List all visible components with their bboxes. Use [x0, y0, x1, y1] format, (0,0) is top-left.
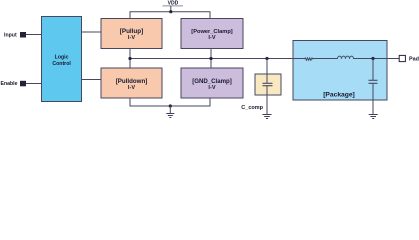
junction GND rail dot — [169, 104, 172, 107]
wire main signal line — [130, 58, 305, 60]
svg-text:[Package]: [Package] — [323, 92, 355, 99]
wire Logic Control to Pulldown — [82, 79, 102, 81]
block Pulldown I-V — [101, 68, 162, 98]
junction dot at C_comp node — [265, 57, 268, 60]
junction dot package cap — [371, 57, 374, 60]
wire Logic Control to Pullup — [82, 31, 102, 33]
wire Power_Clamp bottom to GND_Clamp top — [210, 49, 212, 69]
wire Input to Logic Control — [26, 34, 41, 36]
svg-text:Control: Control — [52, 61, 71, 67]
wire GND rail to ground — [169, 106, 171, 114]
Input terminal square — [20, 32, 26, 38]
Enable terminal square — [20, 81, 26, 87]
capacitor C_comp plates — [263, 82, 273, 84]
pad terminal square — [399, 55, 405, 61]
wire C_comp drop — [266, 59, 268, 84]
junction dot at Pullup/Pulldown node — [128, 57, 131, 60]
svg-text:Pad: Pad — [409, 57, 419, 63]
block Package — [293, 41, 387, 101]
wire Enable to Logic Control — [26, 83, 41, 85]
ground symbol package — [369, 115, 378, 119]
block Logic Control — [42, 17, 82, 102]
junction dot at clamps node — [209, 57, 212, 60]
wire GND rail — [130, 98, 210, 106]
wire VDD bar to rail — [170, 6, 172, 12]
svg-text:I-V: I-V — [208, 85, 215, 91]
block Power_Clamp I-V — [181, 19, 243, 49]
junction VDD rail dot — [169, 10, 172, 13]
wire Pullup bottom to Pulldown top — [129, 49, 131, 69]
VDD supply bar — [163, 5, 184, 7]
svg-text:Input: Input — [4, 32, 17, 38]
inductor L_pkg — [338, 56, 354, 59]
ground symbol C_comp — [263, 115, 272, 119]
svg-text:I-V: I-V — [208, 35, 215, 41]
wire C_comp to ground — [266, 86, 268, 115]
resistor R_pkg zigzag — [305, 58, 314, 60]
svg-text:I-V: I-V — [128, 35, 135, 41]
capacitor C_comp box — [255, 74, 281, 95]
svg-text:[Pullup]: [Pullup] — [120, 28, 143, 35]
svg-text:I-V: I-V — [128, 85, 135, 91]
wire VDD rail — [130, 12, 210, 19]
svg-text:Enable: Enable — [1, 81, 18, 87]
capacitor C_pkg — [372, 59, 374, 81]
block GND_Clamp I-V — [181, 68, 243, 98]
svg-text:C_comp: C_comp — [241, 105, 263, 111]
svg-text:Logic: Logic — [55, 55, 69, 61]
ground symbol center — [166, 114, 174, 118]
block Pullup I-V — [101, 19, 162, 49]
svg-text:[GND_Clamp]: [GND_Clamp] — [192, 78, 232, 85]
svg-text:[Pulldown]: [Pulldown] — [116, 78, 148, 85]
